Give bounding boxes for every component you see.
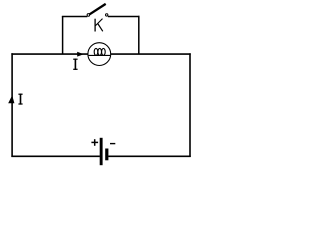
wire bottom left segment [11, 155, 100, 157]
current label I (top) [73, 59, 77, 70]
lamp circle [88, 43, 111, 66]
battery plus sign [91, 139, 98, 146]
lamp filament loop 2 [98, 48, 102, 55]
wire bottom right segment [108, 155, 190, 157]
current arrow on left wire [8, 95, 14, 103]
lamp filament loop 1 [94, 48, 98, 55]
wire switch branch left vertical [62, 16, 64, 54]
switch K blade [90, 4, 106, 14]
battery positive plate [100, 138, 103, 165]
current arrow on main wire [77, 52, 84, 57]
switch K left contact [87, 14, 90, 17]
wire top main right segment [110, 53, 190, 55]
switch label K [95, 19, 103, 32]
wire switch branch top left segment [62, 16, 87, 18]
wire right vertical [189, 53, 191, 157]
wire top main left segment [11, 53, 88, 55]
wire switch branch right vertical [138, 16, 140, 54]
current label I (left) [18, 94, 22, 105]
battery minus sign [110, 143, 115, 145]
lamp filament baseline [89, 54, 110, 56]
battery negative plate [105, 149, 108, 161]
wire left vertical [11, 53, 13, 157]
wire switch branch top right segment [108, 16, 140, 18]
switch K right contact [106, 14, 108, 16]
lamp filament loop 3 [102, 48, 106, 55]
